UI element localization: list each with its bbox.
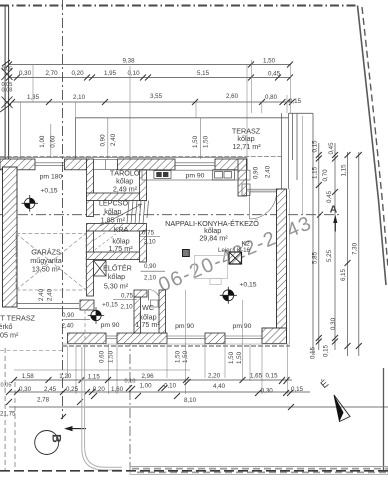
svg-text:0,05: 0,05 xyxy=(1,383,12,389)
room label pantry xyxy=(108,225,133,253)
svg-text:1,85 m²: 1,85 m² xyxy=(101,215,126,224)
bottom dim row 1 ticks xyxy=(11,377,290,384)
svg-text:0,30: 0,30 xyxy=(261,388,274,395)
covered terrace dashed outline xyxy=(0,350,62,352)
svg-text:2,40: 2,40 xyxy=(38,288,45,301)
svg-text:2,40: 2,40 xyxy=(265,165,272,178)
garage roof dashed rectangle with X xyxy=(16,234,86,291)
west fence double line xyxy=(5,6,9,167)
room label WC xyxy=(135,303,160,329)
svg-text:B: B xyxy=(49,434,63,443)
terrace pavement edge strip below south wall xyxy=(62,343,290,345)
svg-text:5,85: 5,85 xyxy=(312,251,319,264)
street boundary thick dashed line xyxy=(0,470,388,472)
svg-text:1,15: 1,15 xyxy=(312,166,319,179)
room label garage xyxy=(30,248,62,274)
axis A tick xyxy=(317,212,323,218)
west side door dim xyxy=(61,312,74,330)
survey point hall xyxy=(88,307,104,323)
leader line K2 xyxy=(238,246,243,253)
eave edge line right xyxy=(302,116,304,214)
svg-text:1,95: 1,95 xyxy=(104,70,117,77)
dimension row 1 line xyxy=(9,65,292,103)
svg-text:1,50: 1,50 xyxy=(236,351,243,364)
svg-text:1,15: 1,15 xyxy=(88,374,101,381)
east wall outer face line xyxy=(288,189,290,344)
svg-text:0,90: 0,90 xyxy=(100,134,107,147)
left dashed verticals bottom xyxy=(4,348,6,470)
svg-text:29,84 m²: 29,84 m² xyxy=(199,233,228,242)
room label storage xyxy=(110,168,140,193)
svg-text:0,90: 0,90 xyxy=(144,263,157,270)
driveway curve double line xyxy=(82,347,122,470)
WC door swing xyxy=(149,290,160,301)
interior wall below stairs xyxy=(87,224,147,232)
bottom dim row 2 line xyxy=(9,391,310,393)
row3 ticks xyxy=(9,99,295,105)
dashed vertical below hall wall xyxy=(84,310,86,345)
svg-text:0,25: 0,25 xyxy=(66,386,79,393)
room label entry hall xyxy=(103,264,132,291)
WC east wall xyxy=(159,290,166,333)
south window 1 xyxy=(167,333,205,344)
svg-text:8,10: 8,10 xyxy=(184,397,197,404)
svg-text:2,78: 2,78 xyxy=(37,397,50,404)
svg-text:0,80: 0,80 xyxy=(265,94,278,101)
svg-text:0,15: 0,15 xyxy=(310,346,317,359)
svg-text:2,40: 2,40 xyxy=(61,323,74,330)
svg-text:0,10: 0,10 xyxy=(127,70,140,77)
svg-text:2,49 m²: 2,49 m² xyxy=(113,185,138,194)
svg-text:0,30: 0,30 xyxy=(19,386,32,393)
svg-text:1,75 m²: 1,75 m² xyxy=(135,320,160,329)
svg-text:0,20: 0,20 xyxy=(71,70,84,77)
south entrance door gap lines xyxy=(106,336,117,339)
svg-text:9,05 m²: 9,05 m² xyxy=(0,330,19,339)
svg-text:0,15: 0,15 xyxy=(289,98,302,105)
auxiliary line above bottom rows xyxy=(14,369,190,371)
storage door opening in north wall xyxy=(94,160,118,170)
row2 ticks xyxy=(6,75,293,81)
cooktop xyxy=(154,171,171,179)
section marker A arrow xyxy=(333,215,337,232)
svg-text:1,50: 1,50 xyxy=(175,350,182,363)
stairs walk line arrow xyxy=(138,204,142,207)
svg-text:2,20: 2,20 xyxy=(208,372,221,379)
svg-text:+0,15: +0,15 xyxy=(102,302,118,309)
kitchen counter xyxy=(142,170,250,180)
terrace door swing arc xyxy=(250,192,277,219)
column gray square xyxy=(183,250,190,257)
eave line across top of house xyxy=(0,156,282,158)
svg-text:pm 90: pm 90 xyxy=(101,322,120,329)
svg-text:1,00: 1,00 xyxy=(139,383,152,390)
boundary right lower vertical xyxy=(383,368,385,471)
axis A horizontal dash-dot xyxy=(0,214,341,216)
sink xyxy=(213,170,235,180)
WC west wall xyxy=(134,297,141,333)
north-east corner wall vertical xyxy=(238,159,247,196)
svg-text:2,96: 2,96 xyxy=(141,373,154,380)
svg-text:1,20: 1,20 xyxy=(59,373,72,380)
pantry door dim xyxy=(142,230,156,246)
interior east wall of pantry xyxy=(140,231,147,262)
terrace outline xyxy=(76,113,314,355)
svg-text:7,30: 7,30 xyxy=(351,242,358,255)
svg-text:0,90: 0,90 xyxy=(253,166,260,179)
svg-text:1,50: 1,50 xyxy=(228,351,235,364)
svg-text:+0,15: +0,15 xyxy=(239,282,256,289)
sidewalk strip xyxy=(130,467,388,475)
bottom extension lines xyxy=(68,290,288,394)
svg-text:0,10: 0,10 xyxy=(125,379,136,385)
svg-text:0,08: 0,08 xyxy=(2,88,13,94)
svg-text:0,75: 0,75 xyxy=(142,230,155,237)
bottom rotated dims below south wall xyxy=(99,350,244,364)
interior wall below pantry xyxy=(87,252,147,260)
svg-text:6,15: 6,15 xyxy=(340,268,347,281)
svg-text:0,70: 0,70 xyxy=(322,169,329,182)
svg-text:2,10: 2,10 xyxy=(144,238,157,245)
axis B tick at line end xyxy=(61,414,66,419)
svg-text:A: A xyxy=(330,203,338,215)
svg-text:1,00: 1,00 xyxy=(39,135,46,148)
svg-text:1,50: 1,50 xyxy=(263,57,276,64)
svg-text:0,90: 0,90 xyxy=(62,312,75,319)
svg-text:0,15: 0,15 xyxy=(323,344,330,357)
west wall hatched xyxy=(3,167,18,307)
WC basin xyxy=(151,300,159,307)
svg-text:Leier LK-16: Leier LK-16 xyxy=(218,247,251,254)
svg-text:1,75 m²: 1,75 m² xyxy=(108,244,133,253)
bottom dim row 3 texts xyxy=(37,397,197,405)
svg-text:1,15: 1,15 xyxy=(340,164,347,177)
svg-text:12,71 m²: 12,71 m² xyxy=(232,142,261,151)
south window 2 xyxy=(225,333,262,344)
axis B vertical dash-dot xyxy=(62,0,64,419)
garage rotated dims 2,40 2,40 xyxy=(38,288,54,301)
bottom dim row 1 texts xyxy=(22,372,278,380)
north wall hatched segments xyxy=(0,159,247,170)
svg-text:2,40: 2,40 xyxy=(47,288,54,301)
west vertical dims 1,00 0,60 xyxy=(39,135,57,148)
svg-text:4,40: 4,40 xyxy=(213,383,226,390)
watermark diagonal phone number xyxy=(155,212,315,297)
terrace door rotated dims xyxy=(253,165,272,179)
svg-text:1,60: 1,60 xyxy=(111,386,124,393)
axis dash-dot bottom x=130 xyxy=(129,336,131,470)
svg-text:0,30: 0,30 xyxy=(330,317,337,330)
garage window in north wall xyxy=(35,159,65,170)
dimension row1 texts xyxy=(122,57,275,64)
svg-text:5,15: 5,15 xyxy=(197,70,210,77)
bottom dim row 2 texts xyxy=(1,379,304,395)
svg-text:2,10: 2,10 xyxy=(73,94,86,101)
svg-text:1,50: 1,50 xyxy=(192,135,199,148)
axis marker B circle xyxy=(35,431,59,455)
row1 ticks xyxy=(6,62,293,68)
svg-text:0,15: 0,15 xyxy=(291,386,304,393)
svg-text:2,45: 2,45 xyxy=(44,386,57,393)
room label stairs xyxy=(99,198,129,224)
property boundary top (dash-dot) xyxy=(0,5,358,7)
svg-text:9,38: 9,38 xyxy=(122,57,135,64)
fridge xyxy=(242,184,250,196)
hall-living door dim xyxy=(144,263,157,282)
stairs walk line xyxy=(100,205,140,226)
svg-text:+0,15: +0,15 xyxy=(40,188,57,195)
interior wall below storage xyxy=(87,193,147,201)
svg-text:KRA: KRA xyxy=(114,225,129,234)
north wall top face line xyxy=(0,157,247,159)
svg-text:0,15: 0,15 xyxy=(265,372,278,379)
east wall hatched xyxy=(277,189,287,344)
extension lines top xyxy=(21,60,291,160)
garage door lines xyxy=(17,304,79,309)
room label covered terrace (clipped at left) xyxy=(0,314,36,340)
room label living-kitchen-dining xyxy=(165,219,259,243)
right dim column rotated texts xyxy=(310,140,359,359)
terrace door lintel lines xyxy=(247,189,278,191)
pantry under-stair dashed diagonals xyxy=(95,228,117,250)
svg-text:pm 90: pm 90 xyxy=(186,173,205,180)
svg-text:1,58: 1,58 xyxy=(22,373,35,380)
dimension row3 texts xyxy=(27,93,302,105)
tiny left margin dims xyxy=(2,67,13,94)
svg-text:0,60: 0,60 xyxy=(99,350,106,363)
bottom dim row 2 ticks xyxy=(6,379,293,396)
svg-text:pm 90: pm 90 xyxy=(175,323,194,330)
dimension row2 texts xyxy=(19,70,281,78)
svg-text:pm 90: pm 90 xyxy=(233,323,252,330)
bottom dim row 3 ticks xyxy=(6,393,294,410)
svg-text:5,30 m²: 5,30 m² xyxy=(104,281,129,290)
svg-text:pm 180: pm 180 xyxy=(40,174,63,181)
svg-text:2,60: 2,60 xyxy=(226,93,239,100)
svg-text:13,50 m²: 13,50 m² xyxy=(32,265,61,274)
survey point living room xyxy=(220,287,237,304)
left fence tick crosses xyxy=(0,60,13,112)
south wall hatched segments xyxy=(68,333,226,344)
WC north wall xyxy=(134,290,147,297)
svg-text:0,15: 0,15 xyxy=(312,140,319,153)
interior west wall of rooms (hatched) xyxy=(80,159,94,310)
svg-text:kőlap: kőlap xyxy=(108,272,125,281)
bottom dim row 3 line xyxy=(9,406,388,408)
svg-text:2,10: 2,10 xyxy=(144,275,157,282)
svg-text:2,10: 2,10 xyxy=(120,304,133,311)
svg-text:21,75: 21,75 xyxy=(0,411,16,418)
pillar K2 xyxy=(229,252,242,264)
svg-text:1,65: 1,65 xyxy=(250,372,263,379)
svg-text:1,50: 1,50 xyxy=(203,135,210,148)
north arrow xyxy=(334,395,350,422)
svg-text:0,75: 0,75 xyxy=(121,293,134,300)
axis B arrow xyxy=(64,426,86,431)
svg-text:0,45: 0,45 xyxy=(328,142,335,155)
stairs treads xyxy=(127,201,149,224)
interior east wall of storage xyxy=(140,170,147,201)
svg-text:2,40: 2,40 xyxy=(110,133,117,146)
svg-text:0,30: 0,30 xyxy=(19,70,32,77)
dining table faint outline xyxy=(195,256,228,279)
bottom dim row 1 line xyxy=(14,379,292,381)
south-east corner wall block xyxy=(262,328,287,344)
svg-text:3,55: 3,55 xyxy=(150,93,163,100)
entry hall niche with X xyxy=(94,261,107,277)
terrace vertical dims xyxy=(108,118,201,159)
svg-text:2,70: 2,70 xyxy=(45,70,58,77)
property boundary right slant: solid + parallel dashed xyxy=(358,6,388,286)
survey point garage xyxy=(22,195,39,212)
svg-text:WC: WC xyxy=(142,303,154,312)
kitchen window in north wall xyxy=(175,159,215,170)
svg-text:0,45: 0,45 xyxy=(326,190,333,203)
right dimension column lines xyxy=(319,143,359,356)
terrace room label xyxy=(232,127,261,151)
svg-text:5,25: 5,25 xyxy=(326,249,333,262)
right dim ticks xyxy=(316,152,362,349)
